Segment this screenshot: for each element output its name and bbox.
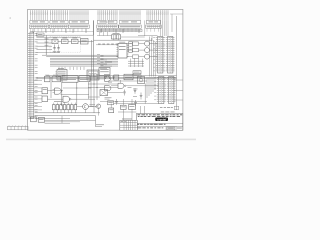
regulator U5 (129, 42, 132, 53)
resistor network RN4 with pin header (97, 10, 118, 32)
wire y88 link (63, 87, 91, 88)
svg-text:crystal: crystal (157, 118, 166, 122)
gate row boxes U9 U10 (45, 75, 61, 82)
resistor pack RP2 (133, 75, 141, 78)
wire drops from sub-bus to P2 rail (97, 32, 145, 37)
crystal module X2 (109, 108, 114, 113)
wire top mid rail (94, 35, 153, 40)
wires into revision area (118, 109, 136, 121)
wire feeds to J4/J5 (147, 77, 155, 98)
wire rows from J1 to oscillator section (36, 39, 60, 53)
wire lower-mid verticals (91, 74, 97, 113)
inverter U13 (42, 88, 48, 94)
connector J2 (153, 37, 164, 74)
connector J1 left edge card pins (28, 32, 38, 119)
resistor network RN1 with pin header (29, 10, 48, 32)
wire right edge taps (174, 80, 183, 100)
label box above J1 (37, 33, 45, 36)
wire bus drops to U7 (70, 67, 84, 70)
supervisor IC U4 (116, 42, 128, 58)
bus end labels (97, 54, 104, 65)
box U18 (114, 75, 119, 80)
wire grid below Q3 (128, 59, 144, 68)
EPROM U6 (55, 68, 67, 80)
wire y44.5 (96, 44, 118, 46)
wires up from title block (141, 106, 145, 114)
wire bottom mid rails (100, 99, 159, 108)
scan streak (6, 139, 196, 141)
resistor network RN3 with pin header (69, 10, 89, 32)
paper speck (9, 17, 11, 19)
latch U7 (87, 70, 99, 80)
box U19 (124, 74, 133, 80)
oscillator U1 (62, 38, 69, 44)
logo (155, 118, 168, 122)
wire sub-bus under RN groups (31, 29, 143, 31)
reset header P2 (112, 33, 121, 39)
wire gate cluster links (88, 75, 159, 97)
wire stubs from J1 lower rows (34, 81, 42, 110)
transistor Q3 (133, 54, 150, 59)
wire mid vertical net (46, 20, 93, 77)
net label column (100, 60, 112, 69)
buffer U12 (79, 76, 90, 82)
resistor pack RP1 (133, 71, 141, 74)
wire bus drops U6 (59, 67, 65, 70)
and gate U14 (53, 88, 62, 94)
wire lower-left horizontals (48, 91, 96, 100)
wire bottom-left links (45, 116, 96, 127)
wire U4 to Q bases (127, 44, 133, 57)
capacitor C3 (123, 90, 126, 96)
capacitor C5 (115, 99, 118, 105)
sub box under X2 (108, 101, 114, 105)
wire right edge verticals (145, 14, 183, 110)
crystal Y1 (52, 38, 58, 44)
oscillator section enclosure (50, 37, 81, 53)
capacitor C2 (57, 45, 60, 51)
connector J4 (154, 77, 165, 104)
wire bottom bus (35, 113, 100, 119)
RAM U11 (62, 76, 78, 82)
label above U17 (104, 73, 110, 76)
opto U22 (138, 77, 145, 84)
note text above title block (160, 106, 179, 112)
resistor network RN2 with pin header (49, 10, 68, 32)
nor gate U15 (42, 96, 48, 102)
filter boxes L1 L2 (121, 105, 136, 110)
divider box U3 (81, 39, 89, 45)
buffer gate U21 (118, 83, 126, 88)
wire Q collector rails (150, 36, 158, 57)
buffer U2 (72, 38, 79, 44)
decoder U8 (99, 66, 110, 76)
capacitor C4 (134, 88, 137, 94)
diode array D1-D3 (105, 77, 115, 79)
wire lower-mid horizontals (88, 81, 147, 87)
capacitor C6 (134, 100, 137, 106)
net label row (98, 43, 118, 46)
wire verticals left of J2 (138, 36, 158, 77)
note text bottom (96, 124, 104, 126)
ground symbol GND2 (57, 50, 60, 53)
transistor Q1 (133, 41, 150, 46)
resistor network RN6 with pin header (146, 10, 169, 36)
wire address rails (36, 35, 176, 79)
capacitor C7 (140, 84, 146, 104)
transistor Q5 (96, 104, 100, 108)
wire lower-left verticals (51, 82, 89, 106)
or gate U20 (105, 86, 111, 91)
wire Y1-U1-U2 (58, 40, 94, 42)
nand gate U16 (63, 96, 71, 102)
resistor network RN5 with pin header (119, 10, 141, 32)
dip switch bank SW1 (53, 101, 77, 113)
capacitor C1 (53, 45, 56, 51)
revision table (120, 120, 138, 130)
title block (136, 114, 183, 131)
transistor Q2 (133, 48, 150, 53)
data bus D0-D7 (42, 55, 118, 66)
film label strip outside sheet (8, 125, 29, 130)
wire Q4 Q5 links (77, 106, 99, 115)
net labels mid (105, 89, 138, 100)
and gate U17 (105, 76, 111, 81)
wire drops from RN groups (33, 20, 139, 35)
transistor Q4 (83, 104, 95, 110)
ground symbol GND1 (53, 50, 56, 53)
connector J3 (163, 37, 174, 74)
xfmr box T1 (100, 90, 108, 96)
connector J5 (164, 77, 175, 104)
jumper block JP1 (31, 117, 45, 122)
